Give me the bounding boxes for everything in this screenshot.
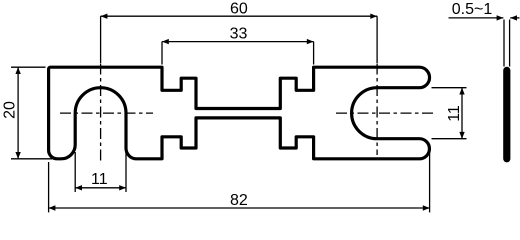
dimension 0.5~1 xyxy=(449,17,504,19)
svg-text:60: 60 xyxy=(230,1,248,18)
centerline horizontal left slot xyxy=(60,112,153,114)
side view bar xyxy=(503,67,510,163)
svg-text:20: 20 xyxy=(2,101,19,119)
centerline vertical right slot xyxy=(376,16,378,63)
svg-text:11: 11 xyxy=(91,171,108,188)
dimension 60 xyxy=(101,15,378,17)
svg-text:33: 33 xyxy=(230,25,248,42)
dimension 20 xyxy=(11,66,46,68)
centerline vertical left slot xyxy=(100,16,102,63)
dimension 33 xyxy=(162,41,314,43)
svg-text:11: 11 xyxy=(446,105,463,122)
dimension 82 xyxy=(48,162,50,212)
dimension 11 right xyxy=(432,87,467,89)
svg-text:82: 82 xyxy=(230,192,248,209)
svg-text:0.5~1: 0.5~1 xyxy=(452,1,493,18)
fuse strip outline main view xyxy=(49,67,430,159)
dimension 11 bottom xyxy=(74,152,76,192)
side view extension lines xyxy=(503,20,505,67)
centerline horizontal right slot xyxy=(336,112,436,114)
